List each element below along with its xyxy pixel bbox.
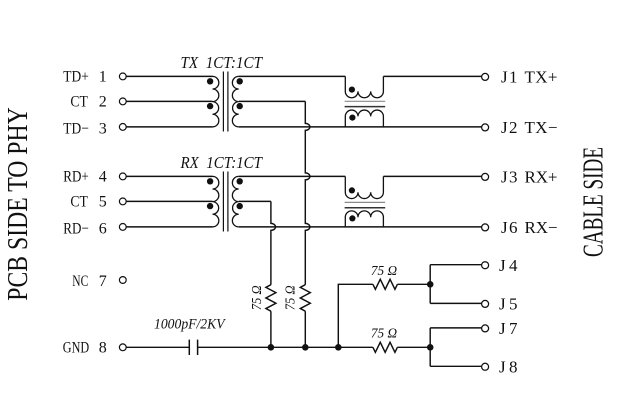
wire T1 secondary center tap — [239, 100, 306, 102]
wire R4 to J7/J8 node — [397, 346, 430, 348]
choke L2 bottom polarity dot — [349, 215, 355, 221]
choke L2 top polarity dot — [349, 187, 355, 193]
choke L2 bottom winding — [345, 211, 383, 227]
svg-text:8: 8 — [99, 340, 107, 357]
resistor R4 75 ohm horizontal in GND rail — [373, 342, 398, 352]
connector J6 terminal — [482, 224, 489, 231]
wire RX center tap vertical with hop over row 6 — [271, 201, 276, 284]
svg-text:CT: CT — [70, 94, 88, 111]
svg-text:RX+: RX+ — [525, 168, 558, 187]
svg-text:J8: J8 — [499, 358, 518, 377]
wire pin 1 — [126, 75, 212, 77]
wire J7/J8 vertical — [429, 328, 431, 366]
junction dot J7/J8 split — [427, 344, 434, 351]
junction dot GND-R2 — [302, 344, 309, 351]
svg-text:GND: GND — [63, 340, 89, 357]
junction dot GND rail to R3 branch — [335, 344, 342, 351]
transformer T2 primary polarity dot pin5 side — [207, 203, 213, 209]
wire pin 4 — [126, 175, 212, 177]
wire T2 secondary bottom to J6 — [239, 226, 482, 228]
capacitor C1 plates — [189, 340, 197, 355]
wire to J8 — [430, 365, 481, 367]
wire pin 3 — [126, 126, 212, 128]
wire T2 secondary top to choke L2 — [239, 175, 346, 177]
svg-text:J5: J5 — [499, 295, 518, 314]
connector J7 terminal — [482, 325, 489, 332]
resistor R3 75 ohm horizontal — [373, 279, 398, 289]
pin 6 terminal — [119, 224, 126, 231]
svg-text:75 Ω: 75 Ω — [371, 263, 397, 278]
svg-text:J1: J1 — [501, 68, 518, 87]
svg-text:3: 3 — [99, 120, 107, 137]
connector J4 terminal — [482, 262, 489, 269]
choke L1 core upper line — [345, 100, 386, 102]
transformer T2 primary polarity dot pin4 side — [207, 178, 213, 184]
svg-text:TD+: TD+ — [63, 69, 89, 86]
choke L1 core lower line — [345, 106, 386, 108]
wire TX center tap vertical with hops over rows 3,4,6 — [305, 101, 310, 284]
wire R2 to GND rail — [304, 311, 306, 347]
choke L1 bottom polarity dot — [349, 115, 355, 121]
svg-text:CT: CT — [70, 194, 88, 211]
wire pin 8 — [126, 346, 189, 348]
svg-text:1000pF/2KV: 1000pF/2KV — [154, 317, 227, 333]
transformer T1 primary polarity dot pin1 side — [207, 78, 213, 84]
svg-text:TX−: TX− — [525, 118, 558, 137]
wire R1 to GND rail — [270, 311, 272, 347]
svg-text:CABLE SIDE: CABLE SIDE — [578, 147, 609, 257]
wire R3 to J4/J5 node — [397, 283, 430, 285]
wire pin 2 — [126, 100, 212, 102]
connector J2 terminal — [482, 124, 489, 131]
wire to J7 — [430, 327, 481, 329]
wire J4/J5 vertical — [429, 265, 431, 304]
svg-text:RX 1CT:1CT: RX 1CT:1CT — [180, 153, 264, 172]
wire GND rail — [198, 346, 373, 348]
svg-text:4: 4 — [99, 169, 107, 186]
resistor R2 75 ohm vertical — [300, 285, 310, 311]
resistor R1 75 ohm vertical — [266, 285, 276, 311]
connector J3 terminal — [482, 173, 489, 180]
svg-text:75 Ω: 75 Ω — [282, 285, 297, 310]
svg-text:RX−: RX− — [525, 218, 558, 237]
svg-text:5: 5 — [99, 194, 107, 211]
choke L1 top polarity dot — [349, 87, 355, 93]
choke L2 top winding — [345, 176, 383, 198]
svg-text:J6: J6 — [501, 218, 518, 237]
transformer T2 core — [223, 172, 228, 232]
svg-text:RD−: RD− — [63, 220, 89, 237]
svg-text:NC: NC — [72, 273, 88, 290]
junction dot GND-R1 — [268, 344, 275, 351]
transformer T1 secondary polarity dot top — [237, 78, 243, 84]
choke L2 core lower line — [345, 207, 386, 209]
wire to J5 — [430, 302, 481, 304]
connector J1 terminal — [482, 73, 489, 80]
wire pin 6 — [126, 226, 212, 228]
svg-text:6: 6 — [99, 220, 107, 237]
wire choke L2 to J3 — [383, 175, 481, 177]
choke L1 top winding — [345, 76, 383, 97]
transformer T1 core — [223, 72, 228, 132]
pin 3 terminal — [119, 124, 126, 131]
transformer T2 secondary winding — [232, 176, 238, 227]
transformer T1 primary winding — [213, 76, 219, 127]
pin 1 terminal — [119, 73, 126, 80]
connector J8 terminal — [482, 363, 489, 370]
transformer T2 secondary polarity dot center — [237, 203, 243, 209]
wire branch up to R3 — [338, 284, 373, 347]
wire T1 secondary top to choke L1 — [239, 75, 346, 77]
svg-text:PCB SIDE TO PHY: PCB SIDE TO PHY — [3, 107, 34, 301]
pin 5 terminal — [119, 198, 126, 205]
wire choke L1 to J1 — [383, 75, 481, 77]
pin 4 terminal — [119, 173, 126, 180]
connector J5 terminal — [482, 300, 489, 307]
transformer T1 secondary winding — [232, 76, 238, 127]
svg-text:1: 1 — [99, 69, 107, 86]
svg-text:75 Ω: 75 Ω — [371, 325, 397, 340]
svg-text:TX+: TX+ — [525, 68, 558, 87]
wire T1 secondary bottom to J2 — [239, 126, 482, 128]
svg-text:J2: J2 — [501, 118, 518, 137]
svg-text:7: 7 — [99, 273, 107, 290]
svg-text:TX 1CT:1CT: TX 1CT:1CT — [181, 53, 264, 72]
transformer T2 secondary polarity dot top — [237, 178, 243, 184]
choke L2 core upper line — [345, 201, 386, 203]
svg-text:J7: J7 — [499, 319, 518, 338]
svg-text:J3: J3 — [501, 168, 518, 187]
pin 7 terminal — [119, 277, 126, 284]
pin 2 terminal — [119, 98, 126, 105]
transformer T1 primary polarity dot pin2 side — [207, 103, 213, 109]
svg-text:J4: J4 — [499, 256, 518, 275]
pin 8 terminal — [119, 344, 126, 351]
svg-text:RD+: RD+ — [63, 169, 89, 186]
svg-text:75 Ω: 75 Ω — [249, 285, 264, 310]
wire T2 secondary center tap — [239, 200, 271, 202]
svg-text:TD−: TD− — [63, 120, 89, 137]
transformer T1 secondary polarity dot center — [237, 103, 243, 109]
wire to J4 — [430, 264, 481, 266]
junction dot J4/J5 split — [427, 281, 434, 288]
svg-text:2: 2 — [99, 94, 107, 111]
wire pin 5 — [126, 200, 212, 202]
transformer T2 primary winding — [213, 176, 219, 227]
choke L1 bottom winding — [345, 110, 383, 127]
